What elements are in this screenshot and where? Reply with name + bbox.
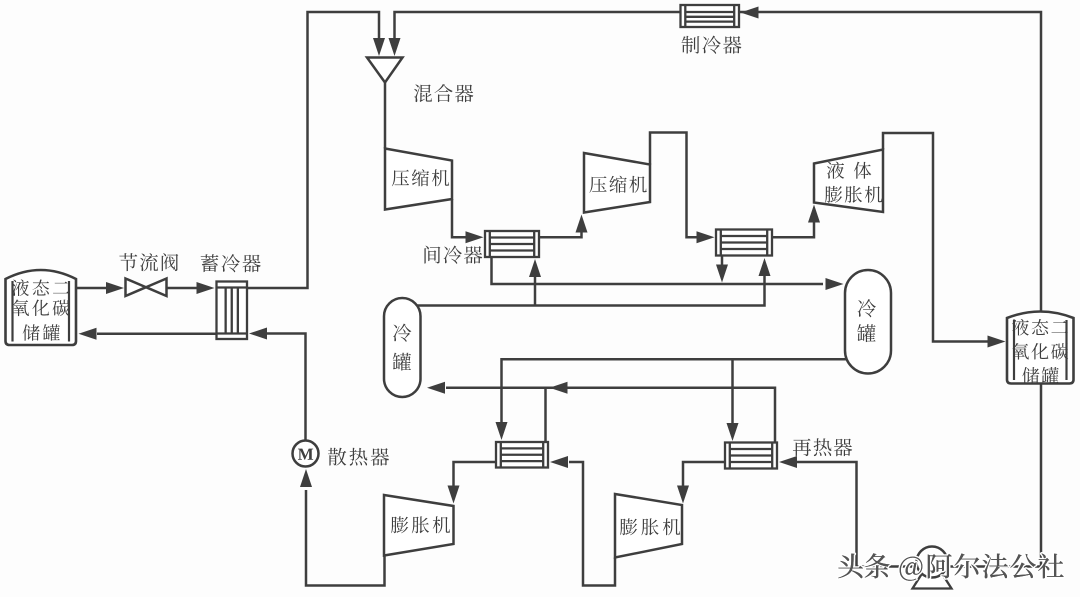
left tank 液态二氧化碳储罐 — [6, 270, 77, 345]
arrow into HX3 right side — [550, 456, 568, 468]
arrow into mixer right inlet — [389, 38, 401, 56]
wire: mixer outlet down to compressor C1 — [384, 83, 387, 149]
wire: IC1 right outlet to compressor C2 inlet — [539, 231, 582, 237]
label 节流阀 — [119, 253, 137, 271]
label 散热器 — [328, 448, 346, 466]
arrow down into E1 inlet — [448, 486, 460, 504]
wire: hot water supply from right cold tank to reheaters — [502, 359, 861, 422]
arrow mid return line — [550, 382, 568, 394]
reheater HX4 再热器 — [725, 443, 777, 469]
wire: branch down to HX4 top — [731, 359, 734, 423]
arrow down into HX3 top — [496, 422, 508, 440]
arrow into regenerator right side — [249, 328, 267, 340]
label 蓄冷器 — [201, 254, 219, 272]
arrow into HX2 left side — [697, 231, 715, 243]
watermark 头条@阿尔法公社 — [838, 553, 1063, 580]
wire: warm water collection line to right cold tank — [492, 257, 824, 284]
arrow down into E2 inlet — [677, 486, 689, 504]
wire: liquid expander outlet up-right-down into right CO2 tank — [883, 133, 988, 342]
wire: recycle line right tank top - up - left across refrigerator - down to mixer right inlet — [395, 12, 1042, 314]
wire: reheater left outlet to expander E2 inlet — [683, 462, 725, 488]
mixer 混合器 funnel — [367, 58, 403, 83]
label 罐 left capsule — [393, 353, 411, 371]
expander E2 膨胀机 — [615, 494, 682, 558]
arrow into regenerator left side — [197, 282, 215, 294]
arrow into mixer left inlet — [373, 38, 385, 56]
arrow into refrigerator right side — [741, 7, 759, 19]
wire: HX3 left outlet to expander E1 inlet — [454, 462, 497, 488]
arrow into left cold tank right side — [427, 382, 445, 394]
arrow up into C2 inlet — [576, 215, 588, 233]
label right tank line2 氧化碳 — [1012, 343, 1028, 360]
label 混合器 — [414, 85, 432, 103]
label 压缩机 C2 — [589, 176, 606, 192]
compressor C2 压缩机 — [584, 153, 650, 213]
wire: left tank outlet to throttle valve — [76, 287, 107, 290]
label 液体 — [827, 162, 844, 179]
label 膨胀机 E1 — [391, 516, 408, 533]
wire: valve outlet to regenerator top inlet — [167, 287, 197, 290]
label 间冷器 — [424, 246, 440, 264]
arrow down onto warm water line — [716, 265, 728, 283]
arrow up into radiator — [300, 469, 312, 487]
arrow up into IC1 bottom — [529, 259, 541, 277]
wire: C2 outlet up-right-down into intercooler HX2 — [650, 133, 697, 238]
label 再热器 — [793, 439, 811, 456]
arrow into throttle valve — [106, 282, 124, 294]
arrow into reheater right side — [779, 456, 797, 468]
wire: HX2 outlet right and up to liquid expander inlet — [772, 221, 814, 237]
expander E1 膨胀机 — [384, 495, 454, 556]
cold tank capsule right 冷罐 — [845, 270, 891, 374]
label 膨胀机 — [825, 186, 842, 203]
arrow into left tank right side — [79, 328, 97, 340]
label right tank line1 液态二 — [1012, 319, 1029, 336]
intercooler HX2 — [716, 230, 772, 256]
radiator motor circle M 散热器 — [293, 441, 319, 467]
label left tank line1 液态二 — [12, 279, 29, 296]
intercooler IC1 间冷器 — [485, 231, 539, 257]
arrow into right cold tank left side — [826, 278, 844, 290]
cold tank capsule left 冷罐 — [384, 298, 421, 397]
regenerator 蓄冷器 — [217, 282, 248, 340]
arrow down into HX4 top — [727, 423, 739, 441]
right tank 液态二氧化碳储罐 — [1007, 312, 1074, 384]
wire: E1 outlet down-left-up to radiator motor — [306, 490, 385, 586]
liquid expander 液体膨胀机 — [814, 150, 883, 213]
arrow up into HX2 bottom — [759, 258, 771, 276]
reheater HX3 — [496, 442, 548, 468]
wire: regenerator bottom outlet left to left tank — [97, 333, 217, 336]
wire: regenerator top outlet riser up-left to mixer left inlet — [247, 12, 379, 288]
label right tank line3 储罐 — [1022, 367, 1039, 383]
arrow into right tank left side — [988, 336, 1006, 348]
throttle valve 节流阀 bowtie — [126, 279, 147, 297]
label 压缩机 C1 — [392, 170, 409, 186]
wire: branch riser to IC1 bottom — [534, 276, 537, 306]
wire: C1 outlet down-right into intercooler IC1 — [452, 199, 466, 237]
arrow into IC1 left side — [466, 231, 484, 243]
label 膨胀机 E2 — [620, 518, 637, 535]
wire: cooled water return line to left cold tank — [446, 388, 775, 443]
label left tank line3 储罐 — [23, 324, 40, 340]
label left tank line2 氧化碳 — [13, 300, 29, 317]
wire: E2 outlet down-left-up into HX3 right side — [569, 462, 615, 586]
wire: cold water supply from left cold tank to intercoolers — [402, 275, 765, 306]
pump stand — [913, 572, 952, 589]
pump circle — [917, 547, 948, 578]
wire: radiator up then left into regenerator bottom path — [267, 334, 306, 441]
wire: branch down from HX2 bottom — [721, 256, 724, 267]
wire: riser from HX3 top to return line — [544, 388, 547, 442]
label 冷 left capsule — [393, 324, 411, 342]
compressor C1 压缩机 — [385, 149, 452, 210]
label 制冷器 — [682, 36, 700, 54]
label 罐 right capsule — [857, 324, 875, 342]
arrow up into liquid expander inlet — [808, 205, 820, 223]
label 冷 right capsule — [858, 299, 876, 317]
wire: right tank bottom down, left along bottom bus, up to reheater right inlet — [797, 384, 1041, 567]
refrigerator 制冷器 heat exchanger — [681, 5, 740, 27]
